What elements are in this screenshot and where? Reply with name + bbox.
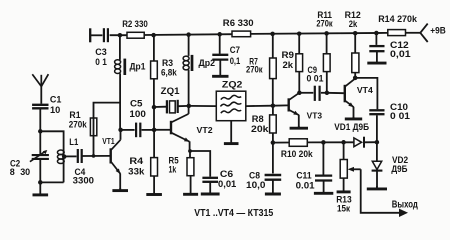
node rail-R7 junction <box>270 32 275 37</box>
capacitor C8 <box>265 175 282 180</box>
node R11 / VT4 base <box>325 91 330 96</box>
node rail-R9 junction <box>297 31 302 36</box>
svg-text:R14 270k: R14 270k <box>378 14 418 24</box>
label R2 value <box>122 19 148 29</box>
wire VT3 emitter down <box>298 115 300 127</box>
wire R7 to node <box>272 79 274 106</box>
wire VT3 base <box>273 104 288 106</box>
node VT2 collector / ZQ1 / Dr2 / ZQ2 <box>187 104 192 109</box>
svg-text:R8: R8 <box>252 114 264 124</box>
ground (R13) <box>337 178 351 192</box>
svg-text:R6 330: R6 330 <box>223 18 254 28</box>
label R8 value <box>251 114 270 134</box>
capacitor C10 <box>369 110 384 114</box>
choke Dr2 <box>183 55 192 71</box>
svg-text:C7: C7 <box>230 45 240 55</box>
resistor R4 <box>151 158 158 176</box>
quartz ZQ1 <box>154 100 189 114</box>
node rail-C7 junction <box>217 32 222 37</box>
svg-text:C1: C1 <box>50 95 62 105</box>
terminal +9V fork <box>420 24 427 42</box>
wire C4 to VT1 base <box>82 155 110 157</box>
label C10 value <box>390 102 410 121</box>
label C4 value <box>73 167 94 186</box>
wire R10 line left <box>273 142 289 144</box>
node VT2 emitter / R5 / C6 <box>188 149 192 153</box>
capacitor C11 <box>315 142 332 180</box>
label +9V <box>430 26 446 36</box>
wire R7 column <box>272 34 274 58</box>
label R13 value <box>336 195 352 214</box>
capacitor C3 <box>104 28 108 42</box>
svg-text:VT4: VT4 <box>357 86 374 95</box>
label R12 value <box>345 10 361 29</box>
ground (VT1 emitter) <box>112 188 128 191</box>
svg-text:15к: 15к <box>337 204 351 214</box>
wire base node to VT2 <box>154 129 170 131</box>
transistor VT4 <box>345 79 355 107</box>
node C11 junction <box>321 140 326 145</box>
wire Dr2 column <box>188 35 190 106</box>
svg-text:C11: C11 <box>296 170 311 180</box>
label L1 <box>69 137 78 147</box>
svg-text:VT3: VT3 <box>307 112 323 121</box>
node A (C1/C2/L1 top) <box>38 129 43 134</box>
label Dr1 <box>130 61 146 71</box>
svg-text:ZQ1: ZQ1 <box>161 86 180 96</box>
svg-text:VT1 ..VT4 — КТ315: VT1 ..VT4 — КТ315 <box>194 208 273 219</box>
terminal output arrow <box>399 209 408 217</box>
svg-text:0,01: 0,01 <box>218 179 236 189</box>
svg-text:0 1: 0 1 <box>95 57 107 67</box>
terminal bar (input end of rail) <box>89 28 91 42</box>
svg-text:Д9Б: Д9Б <box>391 164 408 174</box>
wire VT2 collector up <box>188 106 190 114</box>
choke Dr1 <box>115 59 125 75</box>
node rail-R12 junction <box>353 31 358 36</box>
svg-text:VD1 Д9Б: VD1 Д9Б <box>334 122 369 132</box>
label C7 value <box>230 45 241 66</box>
svg-text:R9: R9 <box>282 50 295 60</box>
resistor R14 <box>388 30 406 36</box>
wire VT2 emitter down <box>189 141 191 151</box>
wire R4 column <box>153 130 155 158</box>
resistor R9 <box>296 54 303 72</box>
capacitor C12 <box>369 33 384 51</box>
node rail-R11 junction <box>324 31 329 36</box>
wire ZQ1 node to base node <box>153 107 155 130</box>
label R9 value <box>282 50 295 70</box>
wire R13 wiper to output <box>361 169 400 213</box>
svg-text:0,1: 0,1 <box>230 56 241 66</box>
ground (C7) <box>212 60 228 77</box>
wire R3 column top <box>153 35 155 61</box>
label VT3 <box>307 112 323 121</box>
label R4 value <box>128 156 145 176</box>
ground (R4) <box>146 176 162 195</box>
wire R11 to C9 node <box>326 72 328 93</box>
wire R3 to ZQ1 node <box>153 79 155 107</box>
wire node A to L1 top <box>40 131 63 150</box>
label C9 value <box>307 65 324 84</box>
ground (R5) <box>183 176 198 195</box>
label R10 value <box>281 149 314 159</box>
label R5 value <box>169 155 179 174</box>
svg-text:Выход: Выход <box>392 199 419 210</box>
label output <box>392 199 419 210</box>
svg-text:8: 8 <box>10 167 15 178</box>
ground (VT4 emitter) <box>345 117 362 119</box>
wire top supply rail <box>90 33 420 36</box>
svg-text:L1: L1 <box>69 137 78 147</box>
svg-text:10,0: 10,0 <box>246 180 266 190</box>
ground (VT3 emitter) <box>290 126 308 128</box>
node VT3 base / ZQ2 / R7 / R8 <box>271 103 276 108</box>
wire R9 to collector node <box>298 72 300 93</box>
resistor R6 <box>232 31 251 37</box>
svg-text:R1: R1 <box>69 110 80 120</box>
node rail-C12 junction <box>374 31 379 36</box>
node VT1 collector / C5 <box>118 128 123 133</box>
label C5 value <box>129 99 146 119</box>
label VD1 <box>334 122 369 132</box>
svg-text:3300: 3300 <box>73 176 94 186</box>
node R8 / R10 / C8 <box>271 140 276 145</box>
label VT1 <box>102 137 115 146</box>
wire R9 column <box>298 34 300 54</box>
label C1 value <box>50 95 62 115</box>
node VT2 base / R4 <box>152 128 157 133</box>
wire R12 to collector node <box>354 73 356 78</box>
wire C1 to node A <box>39 109 41 131</box>
label transistor types caption <box>194 208 273 219</box>
antenna WA1 <box>32 74 48 104</box>
wire C10 to detector node <box>376 115 378 142</box>
ground (VD2) <box>367 186 387 189</box>
wire R8 to R10 node <box>272 133 274 143</box>
node rail-Dr1 junction <box>118 33 123 38</box>
ground (input tank) <box>33 182 49 195</box>
svg-text:1k: 1k <box>169 164 178 174</box>
capacitor C9 <box>299 86 327 101</box>
svg-text:C6: C6 <box>220 169 233 179</box>
resistor R8 <box>270 106 277 133</box>
resistor R5 <box>187 151 194 176</box>
label VT4 <box>357 86 374 95</box>
svg-text:R4: R4 <box>129 156 143 166</box>
wire Dr1 column <box>119 35 121 130</box>
label R3 value <box>161 58 178 77</box>
svg-text:+9В: +9В <box>430 26 446 36</box>
label R1 value <box>69 110 88 130</box>
diode VD2 <box>372 142 383 187</box>
label C8 value <box>246 170 266 190</box>
ground (C8) <box>265 180 281 194</box>
ground (C11) <box>314 181 333 194</box>
svg-text:2k: 2k <box>349 19 358 29</box>
wire R10 to VD1 <box>307 141 353 143</box>
node rail-R3 junction <box>151 33 156 38</box>
svg-text:C8: C8 <box>249 170 260 180</box>
resistor R10 <box>289 139 307 147</box>
wire VT1 collector to C5 node <box>120 130 122 140</box>
svg-text:VT2: VT2 <box>197 126 214 135</box>
filter ZQ2 <box>189 91 273 121</box>
label R11 value <box>316 10 333 28</box>
potentiometer R13 <box>340 142 361 178</box>
capacitor C7 <box>212 55 228 60</box>
resistor R12 <box>352 53 359 73</box>
resistor R11 <box>323 54 330 72</box>
wire L1 tap to C4 <box>64 155 76 157</box>
svg-text:2k: 2k <box>283 60 295 70</box>
capacitor C1 <box>32 105 48 109</box>
ground (ZQ2) <box>224 121 239 144</box>
wire VT1 emitter down <box>119 174 121 190</box>
transistor VT2 <box>171 114 189 142</box>
wire R11 column <box>326 33 328 53</box>
node L1 tap to C4 <box>62 154 67 159</box>
ground (C12) <box>367 51 386 63</box>
node VD1 cathode / C10 / VD2 <box>375 140 380 145</box>
wire emitter to C6 <box>190 151 210 177</box>
wire C7 column <box>219 34 221 54</box>
svg-text:0 01: 0 01 <box>390 111 410 121</box>
label C6 value <box>218 169 236 189</box>
svg-text:6,8k: 6,8k <box>161 67 178 77</box>
label C11 value <box>296 170 315 190</box>
node rail-Dr2 junction <box>186 32 191 37</box>
wire C9 node to VT4 base <box>327 92 344 94</box>
svg-text:R10 20k: R10 20k <box>281 149 314 159</box>
label R14 value <box>378 14 418 24</box>
capacitor C4 <box>78 149 82 163</box>
svg-text:33k: 33k <box>128 166 145 176</box>
svg-text:100: 100 <box>129 109 146 119</box>
svg-text:270k: 270k <box>69 120 88 130</box>
transistor VT3 <box>289 93 300 115</box>
node ZQ1 left <box>152 105 157 110</box>
svg-text:10: 10 <box>50 105 60 115</box>
capacitor C5 <box>121 123 154 138</box>
node R13 junction <box>341 140 346 145</box>
svg-text:C3: C3 <box>95 47 107 57</box>
resistor R1 <box>90 118 96 136</box>
svg-text:Др1: Др1 <box>130 61 146 71</box>
label Dr2 <box>199 58 216 68</box>
svg-text:270к: 270к <box>316 18 333 28</box>
label R6 value <box>223 18 254 28</box>
svg-text:R2 330: R2 330 <box>122 19 148 29</box>
label VT2 <box>197 126 214 135</box>
svg-text:270к: 270к <box>246 65 263 75</box>
svg-text:VT1: VT1 <box>102 137 115 146</box>
svg-text:20k: 20k <box>251 124 270 134</box>
label R7 value <box>246 57 263 75</box>
resistor R7 <box>270 58 277 79</box>
node VT4 collector <box>353 76 358 81</box>
ground (C6) <box>201 182 220 194</box>
wire R1 top to collector column <box>94 103 121 156</box>
svg-text:0,01: 0,01 <box>390 49 411 59</box>
wire collector to C10 <box>355 78 377 109</box>
label C3 value <box>95 47 107 67</box>
node R1/base junction <box>92 154 96 158</box>
label C2 value <box>10 158 30 177</box>
node C2/L1 ground junction <box>38 180 43 185</box>
capacitor C2 (variable) <box>30 131 49 182</box>
transistor VT1 <box>111 140 121 174</box>
svg-text:ZQ2: ZQ2 <box>222 80 243 90</box>
label C12 value <box>390 40 411 59</box>
resistor R2 <box>127 32 144 38</box>
wire R12 column <box>354 33 356 53</box>
node VT3 collector / C9 <box>297 91 302 96</box>
label ZQ2 <box>222 80 243 90</box>
svg-text:0 01: 0 01 <box>307 74 324 84</box>
svg-text:0.01: 0.01 <box>296 181 315 191</box>
capacitor C6 <box>202 178 218 182</box>
resistor R3 <box>151 61 158 79</box>
svg-text:C5: C5 <box>130 99 143 109</box>
svg-text:30: 30 <box>20 167 30 178</box>
label ZQ1 <box>161 86 180 96</box>
inductor L1 <box>57 150 64 182</box>
wire L1 bottom to C2 column <box>40 181 63 183</box>
diode VD1 <box>354 137 377 148</box>
label VD2 <box>391 155 408 174</box>
wire C8 column <box>272 143 274 174</box>
wire VT4 emitter down <box>353 107 355 118</box>
